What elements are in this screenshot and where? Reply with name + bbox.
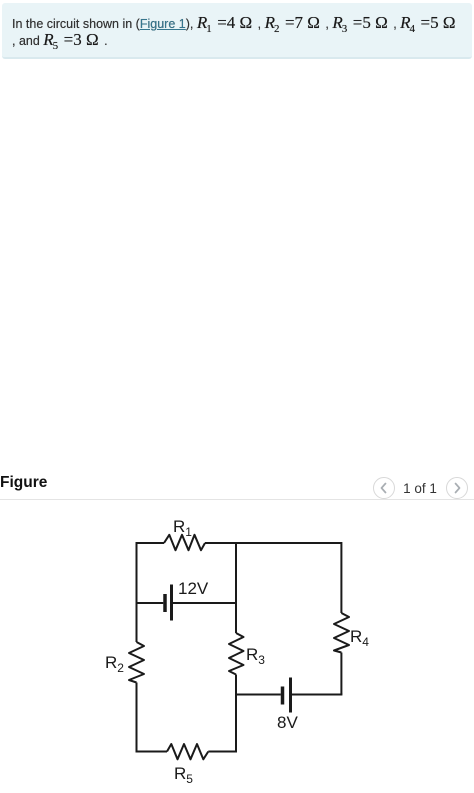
negative plate (short): [163, 594, 167, 612]
wire left vertical upper: [136, 542, 138, 642]
resistor R3: [229, 633, 265, 675]
svg-text:R3: R3: [246, 645, 265, 667]
battery 12V: [137, 579, 238, 621]
wire bottom-left segment: [137, 751, 168, 753]
resistor R1: [164, 517, 205, 550]
wire from positive plate: [292, 694, 342, 696]
negative plate (short): [281, 687, 285, 705]
resistor R5: [167, 744, 208, 786]
positive plate (long): [289, 678, 292, 713]
wire to negative plate: [137, 602, 164, 604]
wire middle vertical lower: [235, 675, 237, 753]
svg-text:R5: R5: [174, 764, 193, 786]
svg-text:R2: R2: [105, 653, 124, 675]
wire bottom-right segment: [208, 751, 237, 753]
svg-text:R1: R1: [173, 517, 192, 539]
figure header: [0, 474, 47, 492]
question banner: [2, 3, 472, 59]
wire top-left segment: [137, 542, 165, 544]
wire top-right segment: [205, 542, 341, 544]
wire to negative plate: [236, 694, 281, 696]
battery 8V: [236, 678, 342, 733]
wire left vertical lower: [136, 683, 138, 753]
resistor R4: [334, 613, 369, 653]
wire from positive plate: [173, 602, 237, 604]
resistor R2: [105, 642, 144, 683]
wire right vertical upper: [340, 542, 342, 613]
svg-text:8V: 8V: [277, 713, 298, 732]
next button: [446, 477, 468, 499]
wire right vertical lower: [340, 653, 342, 695]
positive plate (long): [170, 585, 173, 621]
prev button: [373, 477, 395, 499]
svg-text:12V: 12V: [178, 579, 209, 598]
svg-text:R4: R4: [350, 627, 369, 649]
wire middle vertical upper: [235, 542, 237, 633]
